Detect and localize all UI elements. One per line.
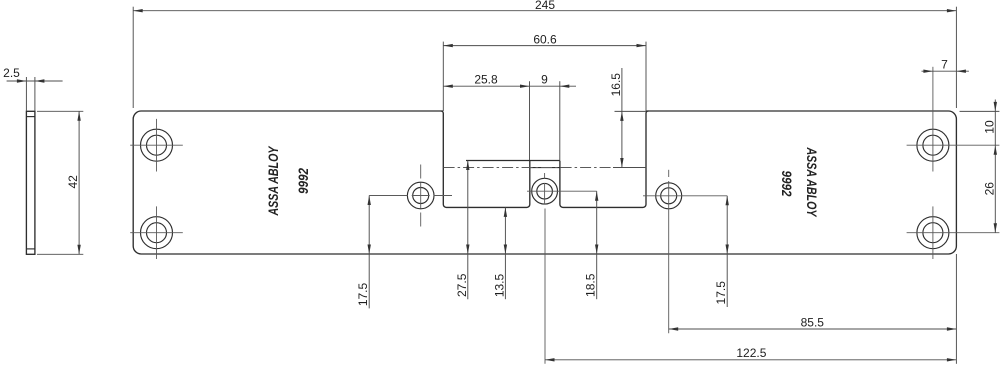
- small hole center outer: [532, 178, 558, 204]
- notch right edge and bottom-right: [560, 111, 649, 207]
- dim 42 arrows: [77, 111, 80, 121]
- hole bottom-right inner: [923, 223, 943, 243]
- svg-text:42: 42: [66, 175, 80, 189]
- dim 2.5 line: [7, 80, 63, 82]
- dim 27.5 arrows: [466, 161, 469, 171]
- small hole center crosshair + leader to 18.5: [527, 190, 597, 192]
- centerline dash-dot: [444, 167, 613, 169]
- hole bottom-right outer: [917, 217, 949, 249]
- hole bottom-left outer: [141, 217, 173, 249]
- dim 60.6 extension right: [645, 42, 647, 111]
- svg-text:13.5: 13.5: [492, 273, 506, 297]
- dim 245 arrows: [133, 9, 143, 12]
- svg-text:7: 7: [941, 58, 948, 72]
- dim 85.5 line: [669, 328, 957, 330]
- svg-text:2.5: 2.5: [3, 66, 20, 80]
- dim 245 line: [133, 10, 956, 12]
- svg-text:245: 245: [535, 0, 555, 12]
- dim 85.5 arrows: [669, 327, 679, 330]
- hole top-left inner: [147, 135, 167, 155]
- small hole left inner: [413, 188, 429, 204]
- side view bottom chamfer line: [26, 248, 35, 250]
- dim 60.6 arrows: [443, 44, 453, 47]
- svg-text:17.5: 17.5: [356, 282, 370, 306]
- dim 2.5 extension lines: [25, 77, 27, 111]
- hole bottom-left inner: [147, 223, 167, 243]
- small hole right outer: [656, 183, 682, 209]
- dim 122.5 arrows: [545, 358, 555, 361]
- notch left edge and bottom-left: [441, 111, 530, 207]
- dim 18.5 arrows: [595, 191, 598, 201]
- hole bottom-left crosshair: [130, 232, 183, 234]
- dim 7 line: [922, 70, 969, 72]
- dim 7 arrows (outside): [923, 70, 933, 73]
- dim 17.5 left line: [368, 196, 370, 309]
- hole top-right crosshair (h merges with dim extensions): [907, 144, 1000, 146]
- dim 42 extension lines: [37, 110, 83, 112]
- svg-text:85.5: 85.5: [801, 315, 825, 329]
- dim 10 arrows: [994, 102, 997, 112]
- svg-text:25.8: 25.8: [474, 73, 498, 87]
- small hole left outer: [407, 182, 434, 209]
- lip top edge: [466, 160, 560, 162]
- dim 9 outside arrow: [560, 85, 570, 88]
- dim 245 extension right: [955, 7, 957, 108]
- svg-text:18.5: 18.5: [584, 273, 598, 297]
- dim 10/26 line: [994, 100, 996, 233]
- small hole right inner: [661, 188, 677, 204]
- hole top-right inner: [923, 135, 943, 155]
- svg-text:ASSA ABLOY: ASSA ABLOY: [266, 145, 281, 216]
- svg-text:ASSA ABLOY: ASSA ABLOY: [804, 147, 819, 218]
- svg-text:10: 10: [982, 120, 996, 134]
- svg-text:16.5: 16.5: [609, 73, 623, 97]
- dim 16.5 line: [621, 68, 623, 168]
- svg-text:27.5: 27.5: [455, 273, 469, 297]
- dim 60.6 line: [443, 45, 646, 47]
- dim 122.5 extension right (shared with 85.5): [955, 254, 957, 364]
- hole top-right outer: [917, 129, 949, 161]
- plate outline (outer border with notch gap on top): [133, 111, 956, 254]
- svg-text:60.6: 60.6: [533, 32, 557, 46]
- svg-text:26: 26: [982, 182, 996, 196]
- centerline solid extension for 16.5: [613, 167, 647, 169]
- dim 16.5 arrows: [620, 111, 623, 121]
- dim 10/26 extension top: [960, 110, 1000, 112]
- svg-text:122.5: 122.5: [736, 346, 766, 360]
- extension for 122.5 from center hole: [544, 209, 546, 364]
- svg-text:9992: 9992: [295, 168, 311, 194]
- dim 25.8 / 9 extensions: [529, 81, 531, 160]
- dim 17.5 left arrows: [368, 196, 371, 206]
- dim 42 line: [78, 111, 80, 254]
- svg-text:9992: 9992: [779, 171, 795, 197]
- dim 122.5 line: [545, 359, 956, 361]
- hole bottom-right crosshair: [907, 232, 1000, 234]
- dim 17.5 right line: [726, 196, 728, 307]
- dim 17.5 right arrows: [726, 196, 729, 206]
- dim 25.8 arrows: [443, 85, 453, 88]
- dim 26 bottom arrow: [994, 223, 997, 233]
- dim 27.5 line: [467, 161, 469, 300]
- small hole left crosshair + leader: [369, 195, 408, 197]
- small hole right crosshair + leader to 17.5R: [643, 195, 727, 197]
- lip box bottom edge: [530, 167, 560, 169]
- dim 245 extension left: [132, 7, 134, 108]
- extension for 85.5 from right small hole: [668, 181, 670, 333]
- dim 13.5 arrows: [504, 207, 507, 217]
- dim 18.5 line: [596, 191, 598, 299]
- dim 16.5 extension top (plate edge extended): [615, 110, 647, 112]
- dim 2.5 arrows: [17, 79, 27, 82]
- side view top chamfer line: [26, 116, 35, 118]
- hole top-left crosshair: [130, 144, 183, 146]
- small hole center inner: [537, 183, 553, 199]
- side view plate outline: [26, 111, 35, 254]
- hole top-left outer: [141, 129, 173, 161]
- svg-text:17.5: 17.5: [714, 281, 728, 305]
- dim 60.6 extension left (continues as notch edge): [442, 42, 444, 111]
- dim 13.5 line: [504, 207, 506, 299]
- dim 25.8 line + 9 tail: [443, 85, 576, 87]
- svg-text:9: 9: [541, 73, 548, 87]
